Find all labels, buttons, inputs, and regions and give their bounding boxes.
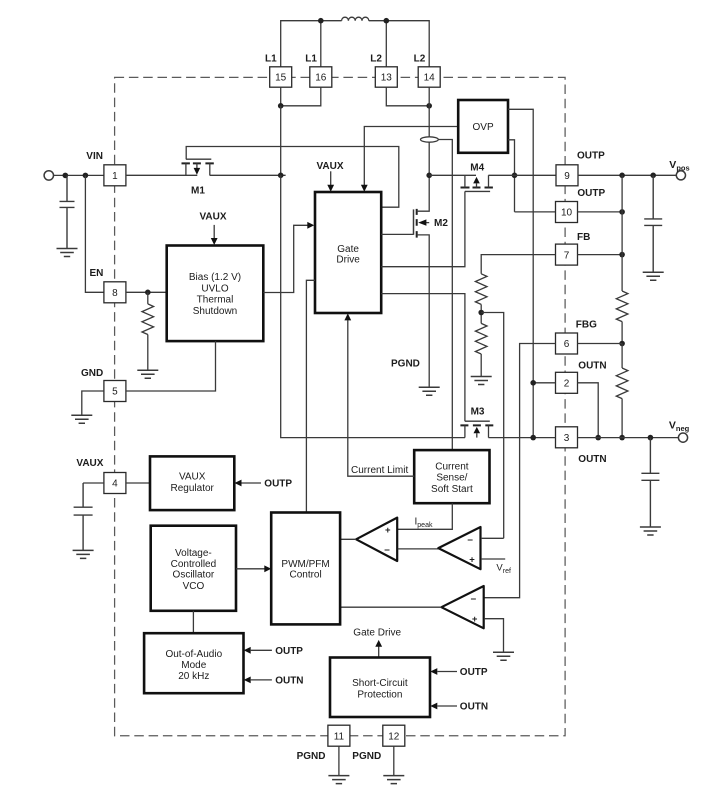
wire OUTN into SCP — [437, 705, 457, 707]
wire FB node — [480, 304, 482, 323]
text Short-Circuit Protection — [352, 678, 408, 701]
text VCO — [171, 548, 217, 592]
node dot Vpos cap — [650, 173, 656, 179]
node dot L2 join — [426, 103, 432, 109]
capacitor VIN input — [60, 175, 75, 248]
svg-text:M1: M1 — [191, 186, 205, 197]
wire ext divider mid — [621, 322, 623, 344]
svg-text:VAUX: VAUX — [317, 161, 344, 172]
pin 7 — [556, 244, 578, 265]
svg-text:L1: L1 — [305, 54, 317, 65]
pin 13 — [375, 67, 397, 87]
svg-text:OVP: OVP — [473, 122, 494, 133]
svg-text:L2: L2 — [414, 54, 426, 65]
arrowhead Current Limit into Gate Drive bottom — [344, 313, 351, 320]
wire OUTP into SCP — [437, 671, 457, 673]
wire pin2 internal — [533, 382, 555, 384]
wire EN resistor bottom — [147, 335, 149, 371]
svg-text:UVLO: UVLO — [201, 283, 228, 294]
svg-text:Drive: Drive — [336, 254, 360, 265]
wire pin16 bottom joins L1 node — [281, 87, 321, 106]
wire OUTP into VAUX Regulator — [242, 482, 262, 484]
svg-text:Short-Circuit: Short-Circuit — [352, 678, 408, 689]
wire pin7 internal to FB divider — [481, 255, 555, 274]
arrowhead SCP gate drive — [375, 640, 382, 647]
wire comp2 minus input — [481, 537, 504, 539]
svg-text:Control: Control — [289, 569, 321, 580]
wire OUTP into OOA — [251, 649, 272, 651]
wire pin13 top — [385, 21, 387, 67]
wire OUTN into OOA — [251, 679, 272, 681]
wire pin15 bottom — [280, 87, 282, 106]
svg-text:M3: M3 — [471, 406, 485, 417]
capacitor VAUX — [74, 483, 93, 550]
wire comp2 plus input Vref — [481, 558, 505, 560]
svg-text:FB: FB — [577, 232, 590, 243]
svg-text:Out-of-Audio: Out-of-Audio — [165, 649, 222, 660]
svg-text:Oscillator: Oscillator — [173, 570, 215, 581]
resistor FB upper — [475, 274, 487, 305]
pin 6 — [556, 333, 578, 354]
wire OVP right to OUTN node — [508, 109, 533, 437]
node dot VIN cap — [63, 173, 69, 179]
node dot pin10 ext — [619, 209, 625, 215]
wire FB node to comp2 minus — [481, 313, 504, 539]
block OVP — [458, 100, 508, 153]
node dot ext divider OUTN — [619, 435, 625, 441]
arrowhead into Bias top — [211, 238, 218, 245]
wire Gate Drive to M3 gate — [381, 294, 465, 422]
svg-text:Current Limit: Current Limit — [351, 465, 408, 476]
wire pin6 external — [578, 343, 623, 345]
resistor FB lower — [475, 323, 487, 354]
wire ext divider upper — [621, 175, 623, 291]
svg-text:1: 1 — [112, 171, 118, 182]
svg-text:15: 15 — [275, 73, 287, 84]
svg-text:10: 10 — [561, 208, 573, 219]
svg-text:GND: GND — [81, 368, 103, 379]
svg-text:Shutdown: Shutdown — [193, 306, 237, 317]
wire comp3 out to PWM — [340, 606, 441, 608]
node dot L1 join — [278, 103, 284, 109]
ground pin12 — [383, 776, 404, 784]
wire L1 top rail left — [281, 21, 342, 67]
svg-text:12: 12 — [388, 731, 400, 742]
wire M2 node to M4 — [429, 174, 476, 176]
wire VAUX arrow into Bias — [213, 225, 215, 238]
node dot L1 — [318, 18, 324, 24]
svg-text:–: – — [471, 593, 477, 604]
block Bias UVLO Thermal Shutdown — [167, 246, 264, 342]
svg-text:8: 8 — [112, 288, 118, 299]
wire FB lower to ground — [480, 354, 482, 377]
wire pin9 to Vpos — [578, 174, 676, 176]
svg-text:4: 4 — [112, 479, 118, 490]
block Out-of-Audio — [144, 633, 243, 693]
terminal Vpos — [676, 171, 685, 180]
transistor M3 — [460, 421, 493, 437]
node dot pin7 ext — [619, 252, 625, 258]
arrowhead OUTP into SCP — [430, 668, 437, 675]
wire pin5 left to ground — [82, 391, 104, 415]
op-amp comparator1 — [356, 518, 397, 561]
svg-text:5: 5 — [112, 387, 118, 398]
arrowhead VCO into PWM — [264, 565, 271, 572]
svg-text:L2: L2 — [370, 54, 382, 65]
svg-text:VCO: VCO — [183, 581, 205, 592]
arrowhead OVP into Gate Drive top — [361, 185, 368, 192]
pin 12 — [383, 725, 405, 746]
arrowhead OUTN into OOA — [244, 677, 251, 684]
pin 2 — [556, 372, 578, 393]
wire comp3 plus to ground — [484, 619, 503, 653]
svg-text:+: + — [469, 555, 475, 566]
svg-text:9: 9 — [564, 171, 570, 182]
svg-text:M2: M2 — [434, 218, 448, 229]
svg-text:Current: Current — [435, 461, 469, 472]
current sense ellipse — [421, 137, 439, 142]
svg-text:Voltage-: Voltage- — [175, 548, 212, 559]
svg-text:Mode: Mode — [181, 660, 206, 671]
svg-text:+: + — [472, 614, 478, 625]
pin 15 — [270, 67, 292, 87]
svg-text:+: + — [385, 525, 391, 536]
pin 3 — [556, 427, 578, 448]
wire OUTN main line from L1 leg — [281, 175, 465, 437]
block PWM PFM Control — [271, 513, 340, 625]
svg-text:Gate Drive: Gate Drive — [353, 627, 401, 638]
svg-text:VAUX: VAUX — [76, 458, 103, 469]
wire pin11 to ground — [338, 746, 340, 775]
svg-text:PGND: PGND — [391, 359, 420, 370]
node dot ext divider top — [619, 173, 625, 179]
svg-text:16: 16 — [315, 73, 327, 84]
wire pin4 to VAUX regulator — [126, 482, 150, 484]
pin 1 — [104, 165, 126, 186]
resistor ext divider upper — [616, 291, 628, 322]
arrowhead OUTP into VAUX Regulator — [235, 480, 242, 487]
svg-text:VAUX: VAUX — [200, 212, 227, 223]
block VAUX Regulator — [150, 456, 234, 510]
wire Current Limit — [348, 320, 414, 476]
wire L1 node down to M1 drain — [280, 106, 282, 176]
node dot pin2-OVP line — [530, 380, 536, 386]
pin 4 — [104, 473, 126, 494]
svg-text:–: – — [467, 534, 473, 545]
pin 14 — [418, 67, 440, 87]
svg-text:14: 14 — [424, 73, 436, 84]
transistor M2 — [414, 175, 430, 387]
capacitor Vneg — [641, 438, 659, 527]
text PWM PFM — [281, 559, 329, 580]
wire Bias to Gate Drive — [263, 225, 307, 292]
resistor ext divider lower — [616, 368, 628, 399]
wire pin6 internal to comp3 — [484, 344, 556, 598]
node dot M2 drain — [426, 173, 432, 179]
inductor L — [342, 17, 369, 21]
svg-text:VIN: VIN — [86, 151, 103, 162]
text VAUX Regulator — [171, 472, 215, 494]
pin 5 — [104, 381, 126, 402]
svg-text:OUTN: OUTN — [460, 702, 488, 713]
svg-text:20 kHz: 20 kHz — [178, 671, 209, 682]
block Gate Drive — [315, 192, 381, 313]
node dot VIN EN — [83, 173, 89, 179]
wire pin14 bottom down to sense ellipse — [428, 87, 430, 137]
wire M1 main line left — [126, 174, 197, 176]
node dot Vneg cap — [648, 435, 654, 441]
wire M1 main line right to L1 node — [210, 174, 286, 176]
svg-text:6: 6 — [564, 339, 570, 350]
ground PGND M2 source — [419, 387, 440, 395]
wire VAUX arrow into Gate Drive — [330, 171, 332, 185]
wire comp2 out to comp1 minus — [398, 548, 439, 550]
resistor EN pulldown — [142, 304, 154, 335]
arrowhead VAUX into Gate Drive top — [327, 185, 334, 192]
svg-text:Protection: Protection — [357, 689, 402, 700]
input terminal VIN — [44, 171, 53, 180]
text Current Sense — [431, 461, 473, 495]
wire VIN terminal to pin 1 — [54, 174, 104, 176]
wire SCP to Gate Drive arrow — [378, 646, 380, 658]
pin 9 — [556, 165, 578, 186]
wire Gate Drive to M4 gate — [381, 191, 465, 266]
ground FB divider — [471, 377, 492, 385]
wire ext divider bottom — [621, 399, 623, 438]
svg-text:11: 11 — [334, 731, 345, 742]
wire pin2 external hook to OUTN — [578, 383, 599, 438]
svg-text:VAUX: VAUX — [179, 472, 206, 483]
wire M4 to pin 9 — [488, 174, 556, 176]
svg-text:Sense/: Sense/ — [436, 473, 467, 484]
svg-text:–: – — [384, 545, 390, 556]
ground VAUX cap — [73, 550, 94, 558]
text Out-of-Audio — [165, 649, 222, 682]
node dot FBG ext — [619, 341, 625, 347]
pin 8 — [104, 282, 126, 303]
wire Ipeak to comp1 plus — [398, 503, 453, 529]
svg-text:OUTP: OUTP — [264, 479, 292, 490]
svg-text:7: 7 — [564, 250, 570, 261]
arrowhead OUTP into OOA — [244, 647, 251, 654]
svg-text:PGND: PGND — [352, 751, 381, 762]
pin 16 — [310, 67, 332, 87]
svg-text:13: 13 — [381, 73, 393, 84]
wire Gate Drive to M2 gate — [381, 233, 413, 235]
arrowhead into Gate Drive left — [307, 222, 314, 229]
node dot OUTP-OVP — [512, 173, 518, 179]
svg-text:OUTN: OUTN — [578, 360, 606, 371]
ground GND pin — [71, 415, 92, 423]
transistor M1 — [182, 159, 214, 175]
node dot OVP-OUTN join — [530, 435, 536, 441]
wire M3 to pin3 — [488, 437, 555, 439]
wire pin8 to Bias — [126, 291, 167, 293]
svg-text:Controlled: Controlled — [171, 559, 217, 570]
wire Gate Drive to PWM control — [306, 280, 315, 512]
svg-text:OUTP: OUTP — [577, 188, 605, 199]
ground EN resistor — [137, 370, 158, 378]
wire pin12 to ground — [393, 746, 395, 775]
svg-text:OUTP: OUTP — [460, 667, 488, 678]
wire OVP to Gate Drive — [364, 127, 458, 186]
svg-text:Regulator: Regulator — [171, 483, 215, 494]
svg-text:PGND: PGND — [297, 751, 326, 762]
svg-text:Thermal: Thermal — [197, 295, 234, 306]
wire EN drop from VIN node — [85, 175, 104, 292]
svg-text:Bias (1.2 V): Bias (1.2 V) — [189, 272, 241, 283]
wire L2 top rail right — [369, 21, 429, 67]
wire comp1 out to PWM — [340, 538, 356, 540]
node dot EN resistor — [145, 290, 151, 296]
IC dashed boundary — [115, 77, 565, 735]
block VCO — [151, 526, 236, 611]
wire ext divider mid2 — [621, 344, 623, 369]
capacitor Vpos — [644, 175, 662, 272]
block Current Sense / Soft Start — [414, 450, 489, 503]
wire M1 gate to gate drive — [186, 147, 399, 208]
ground pin11 — [328, 776, 349, 784]
op-amp comparator2 — [438, 527, 480, 569]
svg-text:L1: L1 — [265, 54, 277, 65]
wire pin10 internal — [515, 211, 556, 213]
op-amp comparator3 — [441, 586, 483, 628]
wire sense ellipse to Current Sense block — [438, 140, 452, 451]
wire VCO to PWM — [236, 568, 265, 570]
wire EN resistor top — [147, 292, 149, 304]
node dot pin2 hook — [595, 435, 601, 441]
node dot FB divider — [478, 310, 484, 316]
svg-text:2: 2 — [564, 379, 570, 390]
arrowhead OUTN into SCP — [430, 703, 437, 710]
svg-text:OUTN: OUTN — [275, 676, 303, 687]
pin 10 — [556, 202, 578, 223]
wire VCO to Out-of-Audio — [192, 611, 194, 633]
svg-text:EN: EN — [90, 268, 104, 279]
ground VIN cap — [57, 249, 78, 257]
pin 11 — [328, 725, 350, 746]
wire ellipse to M2 drain node — [428, 142, 430, 175]
svg-text:FBG: FBG — [576, 319, 597, 330]
terminal Vneg — [678, 433, 687, 442]
node dot L2 — [384, 18, 390, 24]
wire pin7 external — [578, 254, 623, 256]
wire pin16 top — [320, 21, 322, 67]
svg-text:M4: M4 — [470, 163, 484, 174]
svg-text:OUTP: OUTP — [577, 151, 605, 162]
wire pin3 to Vneg — [578, 437, 679, 439]
svg-text:OUTP: OUTP — [275, 646, 303, 657]
wire pin13 bottom joins L2 node — [386, 87, 429, 106]
text Bias lines — [189, 272, 241, 317]
transistor M4 — [461, 175, 493, 191]
svg-text:3: 3 — [564, 433, 570, 444]
text Gate Drive — [336, 244, 360, 265]
svg-text:Soft Start: Soft Start — [431, 484, 473, 495]
wire pin4 to cap — [83, 482, 104, 484]
block Short-Circuit Protection — [330, 658, 430, 718]
node dot M1-L1 — [278, 173, 284, 179]
wire pin5 right to Bias bottom — [126, 341, 216, 391]
ground Vpos cap — [643, 272, 664, 280]
wire pin10 external — [578, 211, 623, 213]
ground Vneg cap — [640, 527, 661, 535]
ground comp3 plus — [493, 652, 514, 660]
svg-text:OUTN: OUTN — [578, 454, 606, 465]
wire OVP right to OUTP node — [508, 140, 515, 212]
